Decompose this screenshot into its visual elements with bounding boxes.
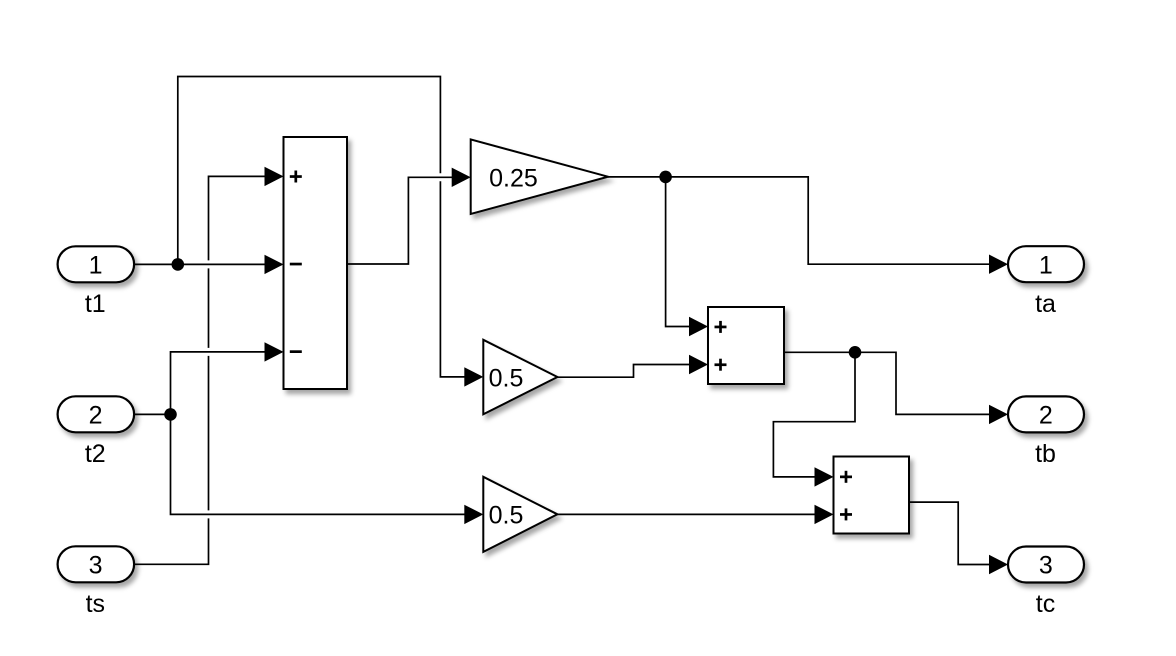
- svg-text:0.25: 0.25: [489, 164, 538, 192]
- svg-text:1: 1: [89, 251, 103, 279]
- svg-text:3: 3: [1039, 551, 1053, 579]
- svg-text:ts: ts: [86, 590, 105, 618]
- svg-text:3: 3: [89, 551, 103, 579]
- svg-text:2: 2: [89, 401, 103, 429]
- svg-text:1: 1: [1039, 251, 1053, 279]
- svg-text:0.5: 0.5: [489, 364, 524, 392]
- svg-text:0.5: 0.5: [489, 501, 524, 529]
- svg-text:tc: tc: [1036, 590, 1055, 618]
- svg-text:ta: ta: [1035, 290, 1056, 318]
- svg-text:t2: t2: [85, 440, 106, 468]
- svg-text:t1: t1: [85, 290, 106, 318]
- svg-text:2: 2: [1039, 401, 1053, 429]
- svg-text:tb: tb: [1035, 440, 1056, 468]
